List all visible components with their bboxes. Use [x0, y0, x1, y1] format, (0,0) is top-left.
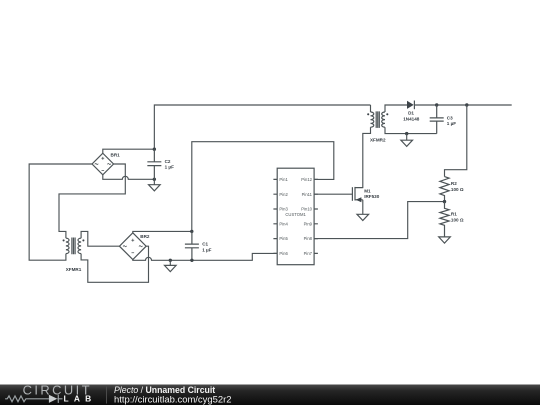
svg-text:100 Ω: 100 Ω: [451, 217, 464, 222]
CircuitLab logo: [5, 383, 96, 404]
wire: XFMR1 secondary bottom around to BR2 right corner: [81, 246, 148, 282]
wire: BR2 top corner to C1 top node and up over to IC Pin12: [133, 142, 334, 233]
bridge rectifier BR1: [92, 152, 120, 174]
transformer XFMR1: [63, 238, 85, 273]
svg-text:Pin12: Pin12: [301, 177, 312, 182]
resistor R1: [440, 202, 464, 237]
wire: BR2 bottom rail to C1 bottom and IC Pin6 (hop over vertical): [133, 253, 277, 260]
svg-text:CUSTOM1: CUSTOM1: [285, 212, 306, 217]
IC U1 CUSTOM1: [273, 168, 318, 265]
wire: XFMR2 primary bottom down to MOSFET drain: [355, 127, 371, 187]
capacitor C2: [147, 149, 174, 179]
svg-text:Pin8: Pin8: [304, 236, 313, 241]
wire: XFMR2 primary top lead: [370, 105, 372, 112]
svg-text:100 Ω: 100 Ω: [451, 187, 464, 192]
junction node at C1 bottom: [190, 259, 193, 262]
svg-text:Pin7: Pin7: [304, 251, 313, 256]
svg-text:Pin11: Pin11: [302, 192, 313, 197]
wire: top rail from C2 node up and right to XFMR2 primary top: [154, 105, 370, 149]
wire: D1 cathode to top right rail: [414, 104, 511, 106]
junction node at secondary ground tap: [405, 132, 408, 135]
svg-text:C2: C2: [165, 159, 171, 164]
resistor R2: [440, 177, 464, 202]
svg-text:1 µF: 1 µF: [447, 121, 456, 126]
svg-text:BR2: BR2: [140, 234, 150, 239]
svg-text:M1: M1: [364, 188, 371, 193]
svg-text:C1: C1: [202, 242, 208, 247]
transformer XFMR2: [367, 111, 388, 142]
ground under C2: [149, 179, 161, 191]
wire: XFMR1 secondary top to BR2 left corner: [81, 231, 119, 246]
svg-text:Pin4: Pin4: [279, 221, 288, 226]
svg-text:1N4148: 1N4148: [403, 116, 420, 121]
capacitor C1: [185, 231, 212, 260]
wire: IC Pin8 to R1/R2 node: [314, 202, 444, 239]
svg-text:Pin5: Pin5: [279, 236, 288, 241]
wire: BR1 bottom corner right to C2 bottom node (hop over vertical): [103, 175, 155, 180]
ground under R1: [439, 237, 451, 243]
wire: BR1 right corner down-around to XFMR1 primary top: [59, 164, 125, 238]
svg-text:1 µF: 1 µF: [165, 165, 174, 170]
wire: IC Pin11 to MOSFET gate: [314, 193, 352, 195]
bridge rectifier BR2: [119, 233, 149, 260]
svg-text:D1: D1: [408, 111, 414, 116]
svg-text:1 µF: 1 µF: [202, 247, 211, 252]
svg-text:Pin9: Pin9: [304, 221, 313, 226]
svg-text:XFMR2: XFMR2: [370, 137, 386, 142]
junction node at C2 top: [153, 148, 156, 151]
MOSFET M1 IRF530: [352, 187, 379, 202]
ground under XFMR2 secondary: [401, 134, 413, 147]
svg-text:LAB: LAB: [64, 394, 97, 404]
svg-text:http://circuitlab.com/cyg52r2: http://circuitlab.com/cyg52r2: [114, 393, 232, 404]
junction node at C2 bottom: [153, 178, 156, 181]
svg-text:R1: R1: [451, 212, 457, 217]
svg-text:Pin3: Pin3: [279, 207, 288, 212]
svg-text:XFMR1: XFMR1: [66, 267, 82, 272]
junction node between R2 and R1: [443, 200, 446, 203]
svg-text:Pin6: Pin6: [279, 251, 288, 256]
footer bar: [0, 385, 540, 405]
wire: MOSFET source down to ground: [362, 200, 364, 215]
svg-text:R2: R2: [451, 181, 457, 186]
svg-text:Pin2: Pin2: [279, 192, 288, 197]
junction node at ground tap on rail: [169, 259, 172, 262]
wire: BR1 left corner to XFMR1 primary bottom: [29, 164, 92, 260]
wire: XFMR2 secondary top to diode D1 anode: [385, 105, 407, 112]
svg-text:Pin1: Pin1: [279, 177, 288, 182]
svg-text:IRF530: IRF530: [364, 194, 380, 199]
wire: BR1 top corner to C2 top node: [103, 149, 155, 153]
ground under BR2 rail: [165, 260, 177, 271]
svg-text:Pin10: Pin10: [301, 207, 312, 212]
svg-text:BR1: BR1: [111, 152, 121, 157]
wire: XFMR2 secondary bottom rail to C3 bottom: [385, 127, 437, 133]
junction node at C1 top: [190, 230, 193, 233]
diode D1 1N4148: [403, 101, 420, 122]
junction node at C3 top: [435, 103, 438, 106]
ground under MOSFET: [357, 214, 369, 220]
junction node at R2 branch: [465, 103, 468, 106]
wire: R2 branch from top rail: [445, 105, 467, 177]
capacitor C3: [430, 105, 457, 134]
svg-text:C3: C3: [447, 115, 453, 120]
footer divider: [106, 387, 108, 404]
